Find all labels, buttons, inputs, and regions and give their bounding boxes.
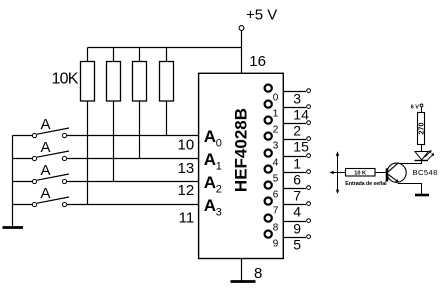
switch S4 (32, 202, 36, 206)
resistor R 10K base (346, 169, 376, 177)
svg-text:1: 1 (273, 108, 279, 119)
svg-text:9: 9 (293, 221, 301, 237)
terminal pin 15 (307, 137, 311, 141)
output bubble 5 (265, 166, 272, 173)
wire output 9 to pin 5 (283, 237, 306, 239)
svg-text:BC548: BC548 (413, 168, 438, 177)
svg-text:6: 6 (293, 172, 301, 188)
terminal pin 6 (307, 170, 311, 174)
svg-text:6 V: 6 V (411, 105, 419, 111)
signal input left arrowhead (329, 171, 333, 174)
svg-text:5: 5 (273, 173, 279, 184)
output bubble 1 (265, 101, 272, 108)
svg-text:A: A (204, 150, 216, 169)
svg-text:16: 16 (249, 53, 266, 70)
wire R270 to LED (421, 145, 423, 152)
wire 6V to R270 (421, 107, 423, 113)
svg-text:4: 4 (273, 157, 279, 168)
svg-text:3: 3 (273, 140, 279, 151)
IC U1 HEF4028B body (199, 73, 284, 258)
svg-text:1: 1 (216, 161, 222, 173)
wire left ground rail (12, 136, 14, 227)
svg-text:A: A (40, 116, 50, 133)
wire signal input (333, 172, 346, 174)
output bubble 6 (265, 182, 272, 189)
output bubble 2 (265, 117, 272, 124)
svg-text:A: A (204, 173, 216, 192)
svg-text:7: 7 (273, 205, 279, 216)
output bubble 7 (265, 198, 272, 205)
terminal pin 5 (307, 235, 311, 239)
svg-text:3: 3 (216, 207, 222, 219)
wire output 2 to pin 2 (283, 123, 306, 125)
svg-text:0: 0 (216, 138, 222, 150)
wire output 4 to pin 1 (283, 156, 306, 158)
svg-text:10 K: 10 K (354, 171, 366, 177)
terminal pin 2 (307, 121, 311, 125)
svg-text:270: 270 (416, 122, 425, 134)
6V terminal (420, 104, 423, 107)
svg-text:8: 8 (254, 265, 262, 282)
wire S4 to pin 11 (67, 204, 199, 206)
switch S3 (32, 179, 36, 183)
svg-text:0: 0 (273, 92, 279, 103)
ground (emitter) (415, 194, 429, 197)
wire output 8 to pin 9 (283, 221, 306, 223)
terminal pin 14 (307, 105, 311, 109)
wire S2 left stub (13, 158, 33, 160)
resistor R270 (418, 113, 425, 145)
svg-text:A: A (204, 127, 216, 146)
wire R2 top stub (113, 48, 115, 62)
wire R3 top stub (139, 48, 141, 62)
switch S1 (32, 133, 36, 137)
svg-text:4: 4 (293, 204, 301, 220)
svg-text:A: A (40, 139, 50, 156)
wire R4 bottom to A0 row (166, 101, 168, 136)
terminal pin 7 (307, 186, 311, 190)
wire output 5 to pin 6 (283, 172, 306, 174)
resistor R2 (107, 62, 121, 102)
resistor R4 (160, 62, 174, 102)
wire output 3 to pin 15 (283, 139, 306, 141)
output bubble 0 (265, 85, 272, 92)
svg-text:Entrada de señal: Entrada de señal (345, 181, 387, 187)
wire R1 top stub (87, 48, 89, 62)
svg-text:2: 2 (273, 124, 279, 135)
wire base (375, 172, 386, 174)
output bubble 9 (265, 231, 272, 238)
svg-text:10: 10 (178, 136, 195, 153)
wire LED to collector (398, 161, 422, 164)
wire resistor bus (88, 47, 242, 49)
svg-text:6: 6 (273, 189, 279, 200)
svg-text:2: 2 (216, 184, 222, 196)
signal swing arrow (337, 155, 339, 191)
wire R3 bottom to A1 row (139, 101, 141, 159)
wire pin 8 (241, 259, 243, 282)
svg-text:14: 14 (293, 107, 309, 123)
LED light arrows (425, 152, 430, 157)
ground (left) (3, 226, 24, 229)
transistor Q1 BC548 (387, 163, 406, 182)
svg-text:12: 12 (178, 182, 195, 199)
wire S4 left stub (13, 204, 33, 206)
wire output 0 to pin 3 (283, 91, 306, 93)
svg-text:9: 9 (273, 238, 279, 249)
svg-text:3: 3 (293, 91, 301, 107)
svg-text:7: 7 (293, 188, 301, 204)
svg-text:5: 5 (293, 237, 301, 253)
wire output 7 to pin 4 (283, 204, 306, 206)
wire output 1 to pin 14 (283, 107, 306, 109)
terminal pin 9 (307, 219, 311, 223)
wire S1 left stub (13, 135, 33, 137)
wire +5V to pin 16 (241, 31, 243, 74)
svg-text:A: A (40, 162, 50, 179)
resistor R3 (133, 62, 147, 102)
wire S3 left stub (13, 181, 33, 183)
wire S2 to pin 13 (67, 158, 199, 160)
output bubble 3 (265, 133, 272, 140)
wire output 6 to pin 7 (283, 188, 306, 190)
svg-text:10K: 10K (52, 71, 79, 88)
output bubble 8 (265, 215, 272, 222)
svg-text:11: 11 (179, 209, 195, 226)
wire R4 top stub (166, 48, 168, 62)
+5V terminal (239, 26, 244, 31)
svg-text:2: 2 (293, 123, 301, 139)
svg-text:HEF4028B: HEF4028B (231, 108, 250, 192)
wire S1 to pin 10 (67, 135, 199, 137)
output bubble 4 (265, 150, 272, 157)
terminal pin 4 (307, 202, 311, 206)
switch S2 (32, 156, 36, 160)
terminal pin 3 (307, 89, 311, 93)
svg-text:1: 1 (293, 156, 301, 172)
svg-text:A: A (204, 196, 216, 215)
svg-text:13: 13 (178, 160, 195, 177)
resistor R1 (81, 62, 95, 102)
wire S3 to pin 12 (67, 181, 199, 183)
LED D1 (415, 152, 428, 160)
wire emitter to ground (398, 184, 422, 195)
ground (IC pin 8) (231, 280, 256, 283)
svg-text:+5 V: +5 V (246, 7, 277, 24)
svg-text:A: A (40, 185, 50, 202)
svg-text:15: 15 (293, 139, 309, 155)
svg-text:8: 8 (273, 222, 279, 233)
wire R1 bottom to A3 row (87, 101, 89, 205)
terminal pin 1 (307, 154, 311, 158)
wire R2 bottom to A2 row (113, 101, 115, 182)
